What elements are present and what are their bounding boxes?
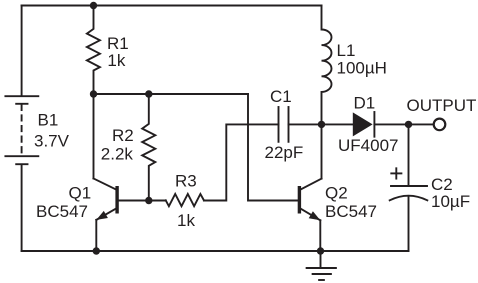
wire Q2 emitter [319,220,321,251]
wire C1 to node [289,123,322,125]
svg-text:1k: 1k [107,51,125,70]
label 1k R1 [107,51,125,70]
label 3.7V [34,132,70,151]
svg-text:R2: R2 [112,126,134,145]
resistor R1 [87,6,100,95]
transistor Q2 [298,179,322,221]
label 2.2k [101,145,134,164]
node R2 bottom junction [145,197,152,204]
node R1 bottom junction [90,90,97,97]
svg-text:OUTPUT: OUTPUT [407,96,477,115]
label D1 [354,93,376,112]
wire mid rail to Q2 base [248,94,298,201]
label L1 [337,41,356,60]
label C2 [431,175,453,194]
node R2 top junction [145,90,152,97]
svg-text:1k: 1k [177,211,195,230]
svg-text:UF4007: UF4007 [338,136,398,155]
label R1 [107,34,129,53]
svg-text:R3: R3 [175,172,197,191]
label C1 [270,87,292,106]
transistor Q1 [94,179,119,220]
resistor R3 [166,194,204,206]
wire R3 to C1 [204,124,279,200]
node output junction [405,121,412,128]
output terminal [434,119,446,131]
wire bottom rail [22,250,409,252]
svg-text:L1: L1 [337,41,356,60]
capacitor C1 [279,107,289,142]
svg-text:3.7V: 3.7V [34,132,70,151]
inductor L1 [322,6,332,125]
label 22pF [265,143,304,162]
svg-text:B1: B1 [38,111,59,130]
label B1 [38,111,59,130]
label BC547 Q1 [36,202,88,221]
wire Q2 collector [321,124,323,178]
label Q2 [325,184,348,203]
svg-text:C1: C1 [270,87,292,106]
wire node to D1 [322,123,353,125]
svg-text:Q1: Q1 [69,184,92,203]
svg-text:Q2: Q2 [325,184,348,203]
label R3 [175,172,197,191]
wire C2 bottom lead [408,196,410,251]
wire C2 top lead [408,124,410,185]
label 1k R3 [177,211,195,230]
resistor R2 [142,94,155,201]
label OUTPUT [407,96,477,115]
wire Q1 collector [93,94,95,179]
svg-text:2.2k: 2.2k [101,145,134,164]
wire to output terminal [409,123,434,125]
label UF4007 [338,136,398,155]
svg-text:D1: D1 [354,93,376,112]
battery B1 [5,96,38,164]
node ground junction [317,247,324,254]
label BC547 Q2 [325,202,377,221]
svg-text:BC547: BC547 [325,202,377,221]
capacitor C2 [390,168,428,200]
wire left drop to battery [21,6,23,96]
label Q1 [69,184,92,203]
label R2 [112,126,134,145]
wire battery to bottom rail [21,166,23,252]
svg-text:100µH: 100µH [337,58,387,77]
wire Q1 base to R3 [119,200,166,202]
svg-text:BC547: BC547 [36,202,88,221]
ground [307,251,336,280]
wire Q1 emitter [95,220,97,251]
svg-text:22pF: 22pF [265,143,304,162]
diode D1 [353,112,375,137]
wire top rail [22,5,322,7]
svg-text:10µF: 10µF [431,192,470,211]
wire mid rail [94,93,249,95]
node C1 L1 D1 junction [318,121,325,128]
label 10uF [431,192,470,211]
node top junction [90,2,97,9]
label 100uH [337,58,387,77]
wire D1 to output node [374,123,408,125]
node Q1 emitter junction [93,247,100,254]
